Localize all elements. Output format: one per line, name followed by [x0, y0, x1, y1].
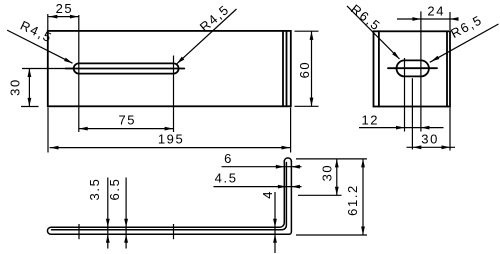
end view inner line right — [446, 31, 448, 106]
dimension 6 line — [222, 166, 302, 168]
label R4,5 right (rotated) — [197, 1, 233, 34]
svg-text:R6,5: R6,5 — [448, 12, 485, 41]
arrow 4.5 right (outside) — [291, 185, 300, 189]
arrow 75 right — [165, 127, 174, 131]
leader R4,5 left arrowhead — [64, 58, 72, 64]
slot (end view) horizontal centerline — [388, 67, 437, 69]
arrow 24 left (outside) — [412, 17, 421, 21]
svg-text:R4,5: R4,5 — [18, 18, 55, 46]
arrow 30 top — [28, 69, 32, 78]
label R6,5 right (rotated) — [448, 12, 485, 41]
extension line 24 right vertical through slot — [420, 11, 422, 131]
extension line left edge above — [47, 14, 49, 31]
slot (end view) left arc R6,5 — [397, 60, 405, 76]
dimension 4 line — [274, 192, 276, 253]
dimension 60 line — [311, 31, 313, 106]
svg-text:30: 30 — [421, 132, 439, 147]
arrow 75 left — [79, 127, 88, 131]
dimension 24 line — [397, 18, 457, 20]
slot (front view) bottom edge — [79, 73, 174, 75]
end view outline (right) — [374, 31, 451, 106]
arrow 60 top — [310, 31, 314, 40]
svg-text:195: 195 — [158, 132, 185, 147]
svg-text:6.5: 6.5 — [107, 178, 122, 201]
bend tangent line 2 (front view right) — [286, 31, 288, 106]
leader R6,5 left line — [347, 6, 400, 59]
svg-text:24: 24 — [427, 4, 445, 19]
front view outline (195x60 plate) — [48, 31, 291, 106]
bend tangent line 1 (front view right) — [282, 31, 284, 106]
arrow 195 left — [50, 146, 59, 150]
dimension text 30C (rotated) — [320, 164, 335, 182]
arrow 25 right — [70, 15, 79, 19]
extension line 195 left — [47, 108, 49, 153]
slot (front view) centerline — [66, 68, 185, 70]
dimension 30 line (end view) — [407, 146, 456, 148]
extension line 24/12 left vertical through slot — [404, 58, 406, 132]
arrow 30B left — [413, 145, 422, 149]
dimension 30 line (front view left) — [28, 69, 30, 107]
end view inner line left — [378, 31, 380, 106]
side view: plate outer surface line — [51, 161, 291, 234]
arrow 30 bottom — [28, 98, 32, 107]
arrow 61.2 top — [361, 159, 365, 168]
dimension 75 line — [79, 128, 174, 130]
leader R6,5 right arrowhead — [431, 56, 439, 62]
side view: slot right projection tick — [173, 224, 175, 239]
extension line 30C bottom (slot center projection) — [298, 194, 342, 196]
arrow 4 top (outside) — [273, 219, 277, 228]
svg-text:4.5: 4.5 — [215, 171, 238, 186]
arrow 12 left (outside) — [396, 126, 405, 130]
dimension 195 line — [50, 147, 291, 149]
extension line slot left center vertical — [78, 15, 80, 132]
extension line 60 bottom — [295, 105, 319, 107]
arrow 25 left — [49, 15, 58, 19]
arrow 4 bottom (outside) — [273, 234, 277, 243]
side view: slot left projection tick — [78, 224, 80, 239]
svg-text:30: 30 — [8, 78, 23, 96]
arrow 12 right (outside) — [421, 126, 430, 130]
side view: plate inner surface line — [51, 161, 284, 227]
dimension text 6.5 (rotated) — [107, 178, 122, 201]
leader R6,5 right line — [430, 24, 499, 62]
extension line slot vertical centerline — [411, 78, 413, 149]
dimension 30 line (side view) — [336, 159, 338, 195]
svg-text:4: 4 — [260, 190, 275, 199]
arrow 61.2 bottom — [361, 227, 365, 236]
leader R4,5 right arrowhead — [177, 57, 185, 64]
dimension 3.5 line — [107, 178, 109, 249]
leader R6,5 left arrowhead — [392, 52, 399, 59]
svg-text:61.2: 61.2 — [345, 184, 360, 216]
label R6,5 left (rotated) — [348, 1, 384, 34]
leader R4,5 left line — [7, 30, 72, 63]
slot (front view) top edge — [79, 62, 174, 64]
dimension 4.5 line — [214, 186, 302, 188]
dimension text 61.2 (rotated) — [345, 184, 360, 216]
slot (end view) right arc R6,5 — [421, 60, 429, 76]
slot (front view) right arc R4,5 — [174, 63, 179, 73]
dimension text 3.5 (rotated) — [87, 178, 102, 201]
extension line 30C/61.2 top — [296, 158, 367, 160]
extension line 30 at right edge below — [449, 108, 451, 151]
svg-text:6: 6 — [224, 151, 233, 166]
dimension text 60 (rotated) — [297, 61, 312, 79]
arrow 30B right — [442, 145, 451, 149]
svg-text:25: 25 — [56, 1, 74, 16]
extension line 24 at right edge above — [449, 12, 451, 30]
extension line 61.2 bottom — [296, 234, 367, 236]
svg-text:75: 75 — [118, 113, 136, 128]
dimension 12 line — [359, 127, 444, 129]
svg-text:12: 12 — [361, 112, 379, 127]
arrow 3.5 bottom (outside) — [106, 234, 110, 243]
leader R4,5 right line — [177, 9, 237, 64]
arrow 6 left (outside) — [276, 165, 285, 169]
arrow 60 bottom — [310, 98, 314, 107]
arrow 30C top — [335, 159, 339, 168]
dimension 61.2 line — [362, 159, 364, 235]
svg-text:R6,5: R6,5 — [348, 1, 384, 34]
extension line bottom left (30) — [21, 106, 39, 108]
arrow 6.5 top (outside) — [124, 219, 128, 228]
label R4,5 left (rotated) — [18, 18, 55, 46]
svg-text:30: 30 — [320, 164, 335, 182]
dimension text 4 (rotated) — [260, 190, 275, 199]
arrow 3.5 top (outside) — [106, 219, 110, 228]
extension line 195 right — [290, 108, 292, 153]
extension line slot center horizontal (30) — [22, 68, 74, 70]
arrow 6 right (outside) — [291, 165, 300, 169]
dimension 6.5 line — [125, 178, 127, 249]
side view: rounded top cap of vertical leg — [284, 158, 291, 162]
arrow 30C bottom — [335, 187, 339, 196]
arrow 6.5 bottom (outside) — [124, 234, 128, 243]
arrow 24 right (outside) — [450, 17, 459, 21]
extension line slot right center vertical — [173, 56, 175, 133]
extension line 60 top — [295, 30, 319, 32]
dimension 25 line — [48, 16, 79, 18]
slot (end view) top edge — [405, 59, 421, 61]
arrow 195 right — [282, 146, 291, 150]
slot (front view) left arc R4,5 — [74, 63, 79, 73]
arrow 4.5 left (outside) — [278, 185, 287, 189]
dimension text 30 (rotated) — [8, 78, 23, 96]
svg-text:3.5: 3.5 — [87, 178, 102, 201]
side view: rounded left end cap — [47, 227, 51, 234]
slot (end view) bottom edge — [405, 75, 421, 77]
side view: plate middle line — [52, 163, 287, 230]
svg-text:60: 60 — [297, 61, 312, 79]
